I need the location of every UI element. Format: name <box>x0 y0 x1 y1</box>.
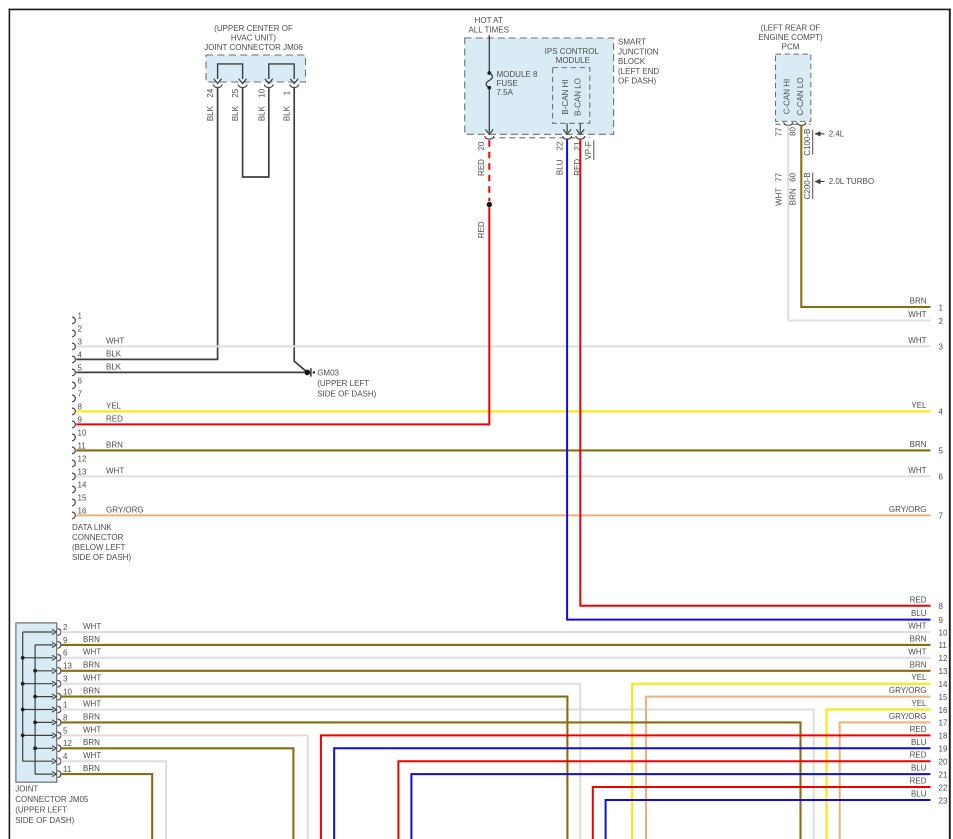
svg-text:7: 7 <box>939 512 944 521</box>
wire WHT JM05 pin2 to end 10 <box>61 631 931 633</box>
svg-text:CONNECTOR JM05: CONNECTOR JM05 <box>15 795 89 804</box>
svg-text:3: 3 <box>63 675 68 684</box>
joint connector JM06 box <box>206 55 306 82</box>
svg-text:BLK: BLK <box>283 105 292 121</box>
ground GM03 <box>305 370 311 376</box>
wire GRY/ORG DLC pin16 to end 7 <box>76 514 930 516</box>
wire RED end 20 <box>398 761 930 839</box>
JM05 pin 2 <box>23 631 53 633</box>
svg-text:GRY/ORG: GRY/ORG <box>889 712 927 721</box>
wire BLK JM06 pin1 to ground GM03 <box>294 87 307 372</box>
svg-text:BLU: BLU <box>911 609 927 618</box>
wire WHT DLC pin13 to end 6 <box>76 475 930 477</box>
svg-text:(LEFT END: (LEFT END <box>618 67 659 76</box>
svg-text:8: 8 <box>78 402 83 411</box>
svg-text:2: 2 <box>939 317 944 326</box>
svg-text:BRN: BRN <box>83 764 100 773</box>
svg-text:5: 5 <box>939 447 944 456</box>
svg-text:(UPPER LEFT: (UPPER LEFT <box>317 379 369 388</box>
DLC pin 5 <box>72 369 75 376</box>
svg-text:GRY/ORG: GRY/ORG <box>106 505 144 514</box>
svg-text:1: 1 <box>63 700 68 709</box>
svg-text:C200-B: C200-B <box>803 172 812 199</box>
JM05 pin 5 <box>23 734 53 736</box>
wire RED to DLC pin9 <box>76 207 489 424</box>
PCM connector grouping dashed line <box>776 123 811 125</box>
JM05 pin 9 <box>35 644 53 646</box>
JM05 bus junction <box>21 734 25 738</box>
wire RED IPS pin21 to end 8 <box>580 139 930 606</box>
JM05 pin 12 <box>35 747 53 749</box>
wire WHT PCM pin77 C-CAN HI to end 2 <box>788 126 930 321</box>
wire BLK jumper loop JM06 pin25 to pin10 <box>243 87 269 177</box>
svg-text:1: 1 <box>283 90 292 95</box>
JM05 pin 1 <box>23 709 53 711</box>
svg-text:GM03: GM03 <box>317 368 339 377</box>
DLC pin 12 <box>72 460 75 467</box>
svg-text:BRN: BRN <box>910 634 927 643</box>
svg-text:7.5A: 7.5A <box>497 88 514 97</box>
svg-text:6: 6 <box>63 649 68 658</box>
JM06 internal jumper pins 24-25 <box>218 64 243 79</box>
DLC pin 6 <box>72 382 75 389</box>
svg-text:WHT: WHT <box>83 648 101 657</box>
svg-text:SIDE OF DASH): SIDE OF DASH) <box>72 553 131 562</box>
fuse MODULE 8 FUSE 7.5A <box>487 71 491 75</box>
wire YEL DLC pin8 to end 4 <box>76 410 930 412</box>
svg-text:9: 9 <box>939 616 944 625</box>
svg-text:6: 6 <box>939 473 944 482</box>
svg-text:WHT: WHT <box>908 466 926 475</box>
svg-text:YEL: YEL <box>106 401 122 410</box>
svg-text:SMART: SMART <box>618 38 646 47</box>
svg-text:ENGINE COMPT): ENGINE COMPT) <box>758 33 823 42</box>
DLC pin 14 <box>72 486 75 493</box>
svg-text:MODULE 8: MODULE 8 <box>497 70 538 79</box>
wire BRN JM05 pin9 to end 11 <box>61 644 931 646</box>
svg-text:C100-B: C100-B <box>803 129 812 156</box>
svg-text:RED: RED <box>910 751 927 760</box>
JM05 pin 13 <box>35 670 53 672</box>
svg-text:BLU: BLU <box>556 159 565 175</box>
JM05 pin 10 <box>35 696 53 698</box>
svg-text:BRN: BRN <box>789 188 798 205</box>
wire BRN PCM pin80 C-CAN LO to end 1 <box>801 126 930 308</box>
PCM box <box>776 54 811 121</box>
svg-text:7: 7 <box>78 389 83 398</box>
svg-text:4: 4 <box>63 752 68 761</box>
svg-text:77: 77 <box>775 127 784 136</box>
IPS pin 22 lead <box>566 123 568 132</box>
svg-text:YEL: YEL <box>911 699 927 708</box>
svg-text:BRN: BRN <box>83 687 100 696</box>
svg-text:12: 12 <box>78 454 87 463</box>
wire BRN JM05 pin8 down <box>61 722 801 839</box>
svg-text:WHT: WHT <box>83 622 101 631</box>
svg-text:13: 13 <box>63 662 72 671</box>
svg-text:6: 6 <box>78 376 83 385</box>
DLC pin 16 <box>72 512 75 519</box>
svg-text:IPS CONTROL: IPS CONTROL <box>545 47 600 56</box>
svg-text:1: 1 <box>939 303 944 312</box>
JM05 bus junction <box>33 746 37 750</box>
wire RED end 18 <box>321 735 931 839</box>
svg-text:12: 12 <box>63 739 72 748</box>
svg-text:C-CAN HI: C-CAN HI <box>783 79 792 115</box>
svg-text:DATA LINK: DATA LINK <box>72 523 112 532</box>
junction splice <box>487 202 492 207</box>
svg-text:RED: RED <box>477 221 486 238</box>
JM06 pin 24 connector symbol <box>213 84 222 87</box>
svg-text:BLU: BLU <box>911 790 927 799</box>
wire BLU end 19 <box>334 748 930 839</box>
svg-text:10: 10 <box>78 428 87 437</box>
svg-text:HVAC UNIT): HVAC UNIT) <box>231 34 277 43</box>
svg-text:80: 80 <box>789 127 798 136</box>
DLC pin 3 <box>72 343 75 350</box>
DLC pin 1 <box>72 317 75 324</box>
svg-text:(UPPER CENTER OF: (UPPER CENTER OF <box>214 24 293 33</box>
wire BLU end 21 <box>411 774 930 839</box>
IPS pin 21 connector <box>576 136 585 139</box>
C100-B underline <box>812 130 814 155</box>
svg-text:RED: RED <box>910 725 927 734</box>
smart junction block box <box>465 38 614 134</box>
DLC pin 13 <box>72 473 75 480</box>
PCM pin 77 connector <box>784 122 793 125</box>
JM05 bus junction <box>21 656 25 660</box>
wire BRN JM05 pin12 down <box>61 748 294 839</box>
svg-text:JOINT: JOINT <box>15 785 38 794</box>
svg-text:RED: RED <box>910 595 927 604</box>
svg-text:20: 20 <box>477 141 486 150</box>
svg-text:13: 13 <box>78 467 87 476</box>
svg-text:10: 10 <box>63 688 72 697</box>
svg-text:22: 22 <box>939 783 948 792</box>
svg-text:WHT: WHT <box>106 466 124 475</box>
svg-text:B-CAN LO: B-CAN LO <box>574 78 583 116</box>
svg-text:WHT: WHT <box>908 622 926 631</box>
svg-text:16: 16 <box>78 506 87 515</box>
page frame top border <box>9 8 951 10</box>
svg-text:2.4L: 2.4L <box>829 129 845 138</box>
IPS control module inner box <box>553 68 590 124</box>
DLC pin 15 <box>72 499 75 506</box>
wire WHT JM05 pin6 to end 12 <box>61 657 931 659</box>
svg-text:8: 8 <box>63 713 68 722</box>
PCM pin 80 connector <box>797 122 806 125</box>
wire RED end 22 <box>593 787 931 839</box>
wire GRY/ORG end 15 <box>646 697 931 839</box>
wire YEL end 14 <box>632 684 930 839</box>
wire GRY/ORG end 17 <box>840 722 931 839</box>
svg-text:SIDE OF DASH): SIDE OF DASH) <box>15 816 74 825</box>
svg-text:4: 4 <box>78 350 83 359</box>
svg-text:CONNECTOR: CONNECTOR <box>72 533 124 542</box>
svg-text:16: 16 <box>939 706 948 715</box>
svg-text:5: 5 <box>78 363 83 372</box>
svg-text:5: 5 <box>63 726 68 735</box>
svg-text:BRN: BRN <box>910 440 927 449</box>
svg-text:11: 11 <box>78 441 87 450</box>
wire BRN JM05 pin10 down <box>61 697 568 839</box>
SJB connector grouping dashed line <box>489 137 590 139</box>
svg-text:BLK: BLK <box>257 105 266 121</box>
JM06 pin 1 connector symbol <box>290 84 299 87</box>
svg-text:22: 22 <box>556 141 565 150</box>
DLC pin 4 <box>72 356 75 363</box>
svg-text:BLU: BLU <box>911 764 927 773</box>
svg-text:MODULE: MODULE <box>556 56 590 65</box>
svg-text:21: 21 <box>939 770 948 779</box>
svg-text:YEL: YEL <box>911 673 927 682</box>
DLC pin 10 <box>72 434 75 441</box>
svg-text:BLK: BLK <box>206 105 215 121</box>
wire RED fused feed dashed segment <box>488 140 490 201</box>
svg-text:PCM: PCM <box>782 42 800 51</box>
wire WHT JM05 pin5 down <box>61 735 308 839</box>
svg-text:24: 24 <box>206 88 215 97</box>
svg-text:FUSE: FUSE <box>497 79 518 88</box>
svg-text:25: 25 <box>231 88 240 97</box>
svg-text:(BELOW LEFT: (BELOW LEFT <box>72 543 125 552</box>
svg-text:WHT: WHT <box>83 725 101 734</box>
svg-text:15: 15 <box>78 493 87 502</box>
arrow 2.4L <box>815 133 825 135</box>
svg-text:C-CAN LO: C-CAN LO <box>796 77 805 115</box>
DLC pin 7 <box>72 395 75 402</box>
svg-text:18: 18 <box>939 732 948 741</box>
svg-text:8: 8 <box>939 602 944 611</box>
JM05 bus junction <box>33 695 37 699</box>
svg-text:20: 20 <box>939 758 948 767</box>
svg-text:(UPPER LEFT: (UPPER LEFT <box>15 806 67 815</box>
svg-text:BRN: BRN <box>910 297 927 306</box>
svg-text:17: 17 <box>939 719 948 728</box>
svg-text:9: 9 <box>63 636 68 645</box>
svg-text:3: 3 <box>78 337 83 346</box>
svg-text:ALL TIMES: ALL TIMES <box>468 26 508 35</box>
wire BRN JM05 pin11 down <box>61 774 152 839</box>
svg-text:15: 15 <box>939 693 948 702</box>
svg-text:23: 23 <box>939 796 948 805</box>
JM05 pin 3 <box>23 683 53 685</box>
IPS pin 22 connector <box>563 136 572 139</box>
svg-text:BLK: BLK <box>106 362 122 371</box>
wire WHT DLC pin3 to end 3 <box>76 345 930 347</box>
wire BRN JM05 pin13 to end 13 <box>61 670 931 672</box>
svg-text:19: 19 <box>939 745 948 754</box>
svg-text:WHT: WHT <box>83 674 101 683</box>
JM06 internal jumper pins 10-1 <box>269 64 294 79</box>
svg-text:B-CAN HI: B-CAN HI <box>561 79 570 114</box>
svg-text:77: 77 <box>775 172 784 181</box>
VP-F underline <box>593 141 595 161</box>
JM05 bus junction <box>33 669 37 673</box>
svg-text:BRN: BRN <box>83 661 100 670</box>
svg-text:12: 12 <box>939 654 948 663</box>
svg-text:2: 2 <box>78 324 83 333</box>
svg-text:WHT: WHT <box>106 336 124 345</box>
svg-text:GRY/ORG: GRY/ORG <box>889 686 927 695</box>
svg-text:BRN: BRN <box>83 738 100 747</box>
svg-text:JOINT CONNECTOR JM06: JOINT CONNECTOR JM06 <box>204 43 303 52</box>
svg-text:WHT: WHT <box>908 310 926 319</box>
svg-text:14: 14 <box>939 680 948 689</box>
svg-text:JUNCTION: JUNCTION <box>618 47 659 56</box>
svg-text:(LEFT REAR OF: (LEFT REAR OF <box>761 23 821 32</box>
svg-text:WHT: WHT <box>908 336 926 345</box>
JM05 bus junction <box>33 721 37 725</box>
svg-text:10: 10 <box>939 628 948 637</box>
svg-text:1: 1 <box>78 311 83 320</box>
wire YEL end 16 <box>827 710 931 839</box>
JM05 pin 4 <box>23 760 53 762</box>
svg-text:RED: RED <box>106 414 123 423</box>
svg-text:60: 60 <box>789 172 798 181</box>
svg-text:BRN: BRN <box>106 440 123 449</box>
JM05 internal bus WHT side <box>22 632 24 761</box>
svg-text:BRN: BRN <box>910 660 927 669</box>
JM06 pin 25 connector symbol <box>238 84 247 87</box>
svg-text:11: 11 <box>63 765 72 774</box>
JM05 bus junction <box>21 682 25 686</box>
JM05 pin 11 <box>35 773 53 775</box>
arrow 2.0L TURBO <box>815 181 825 183</box>
wire from hot feed into fuse <box>488 35 490 72</box>
svg-text:WHT: WHT <box>83 699 101 708</box>
DLC pin 11 <box>72 447 75 454</box>
svg-text:BLK: BLK <box>106 349 122 358</box>
wire BLK JM06 pin24 to DLC pin4 <box>76 87 217 359</box>
wire WHT JM05 pin4 down <box>61 761 166 839</box>
svg-text:RED: RED <box>477 159 486 176</box>
page frame left border <box>8 9 10 839</box>
svg-text:VP-F: VP-F <box>584 141 593 159</box>
C200-B underline <box>812 173 814 199</box>
JM05 pin 6 <box>23 657 53 659</box>
svg-text:2.0L TURBO: 2.0L TURBO <box>829 177 874 186</box>
DLC pin 9 <box>72 421 75 428</box>
JM05 internal bus BRN side <box>34 645 36 774</box>
svg-text:BLOCK: BLOCK <box>618 57 646 66</box>
svg-text:WHT: WHT <box>908 647 926 656</box>
svg-text:SIDE OF DASH): SIDE OF DASH) <box>317 389 376 398</box>
svg-text:WHT: WHT <box>775 188 784 206</box>
svg-text:YEL: YEL <box>911 401 927 410</box>
svg-text:OF DASH): OF DASH) <box>618 77 657 86</box>
svg-text:BLU: BLU <box>911 738 927 747</box>
DLC pin 2 <box>72 330 75 337</box>
JM05 pin 8 <box>35 721 53 723</box>
svg-text:13: 13 <box>939 667 948 676</box>
wire BRN DLC pin11 to end 5 <box>76 449 930 451</box>
wire WHT JM05 pin3 down <box>61 684 580 839</box>
svg-text:9: 9 <box>78 415 83 424</box>
svg-text:HOT AT: HOT AT <box>475 16 503 25</box>
svg-text:BLK: BLK <box>231 105 240 121</box>
svg-text:4: 4 <box>939 408 944 417</box>
svg-text:RED: RED <box>910 777 927 786</box>
DLC pin 8 <box>72 408 75 415</box>
svg-text:2: 2 <box>63 623 68 632</box>
joint connector JM05 box <box>16 623 57 782</box>
wire BLU end 23 <box>606 800 931 839</box>
svg-text:BRN: BRN <box>83 712 100 721</box>
svg-text:BRN: BRN <box>83 635 100 644</box>
svg-text:3: 3 <box>939 343 944 352</box>
SJB fuse output pin 20 <box>485 136 494 139</box>
svg-text:WHT: WHT <box>83 751 101 760</box>
page frame right border <box>949 9 951 839</box>
JM06 pin 10 connector symbol <box>264 84 273 87</box>
IPS pin 21 lead <box>579 123 581 132</box>
svg-text:14: 14 <box>78 480 87 489</box>
JM05 bus junction <box>21 708 25 712</box>
wire WHT JM05 pin1 down <box>61 710 814 839</box>
wire BLU IPS pin22 to end 9 <box>567 139 930 619</box>
svg-text:10: 10 <box>257 88 266 97</box>
svg-text:GRY/ORG: GRY/ORG <box>889 505 927 514</box>
wire BLK DLC pin5 to GM03 <box>76 371 305 373</box>
svg-text:11: 11 <box>939 641 948 650</box>
